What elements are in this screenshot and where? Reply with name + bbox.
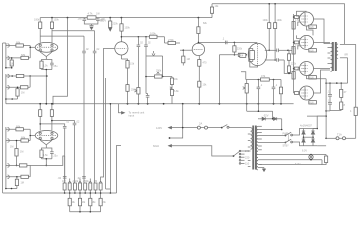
svg-text:270k: 270k <box>168 38 174 42</box>
svg-text:1M: 1M <box>62 179 66 183</box>
potentiometer P2 <box>73 179 82 194</box>
wire off-page reverb send <box>119 104 125 114</box>
capacitor C filter left <box>78 17 92 24</box>
capacitor C tone b <box>144 37 148 94</box>
wire grid join V1 <box>29 46 35 58</box>
svg-text:STBY: STBY <box>283 145 290 148</box>
svg-text:.1: .1 <box>260 83 263 87</box>
label V6 <box>309 48 317 52</box>
resistor R grid stopper V5 <box>238 53 247 56</box>
wire V6 plate <box>314 41 331 43</box>
diode D bias 2 <box>272 117 282 120</box>
svg-text:.02: .02 <box>140 42 144 45</box>
svg-text:220k: 220k <box>291 47 297 50</box>
resistor R 68k ch2b <box>9 136 30 143</box>
wire V5 cathode loop <box>250 62 258 68</box>
wire NFB row <box>325 82 347 84</box>
wire V5 aux pins <box>297 11 307 26</box>
wire bias row upper <box>247 104 273 119</box>
wire presence row <box>246 79 281 81</box>
wire V6 aux pins <box>297 35 300 49</box>
svg-text:input: input <box>129 114 135 118</box>
tube V5 6L6 <box>300 12 314 26</box>
svg-text:68k: 68k <box>16 124 21 128</box>
label V8 <box>309 100 317 104</box>
wire plate V1b to coupling <box>52 30 95 32</box>
resistor R grid leak V5 <box>233 42 236 56</box>
resistor R cathode PI <box>198 60 201 67</box>
svg-text:25u: 25u <box>54 155 59 158</box>
wire PT primary taps <box>248 134 251 167</box>
resistor R snub 2 <box>340 97 346 110</box>
wire plate V2a branch <box>39 123 64 126</box>
resistor R plate V2a <box>39 103 42 131</box>
wire rect feed top <box>293 129 318 136</box>
capacitor C cathode V1 <box>46 60 53 70</box>
svg-text:6L6: 6L6 <box>309 100 314 104</box>
capacitor C V4 coupling <box>222 37 227 45</box>
resistor R 68k lower2 <box>9 165 30 178</box>
potentiometer P3 <box>83 179 92 194</box>
svg-text:1.5k: 1.5k <box>43 154 48 157</box>
wire V4 plate out <box>198 42 258 45</box>
wire V5 output top <box>265 49 277 51</box>
svg-text:1M: 1M <box>21 182 24 185</box>
node dots ground bus <box>45 103 282 105</box>
svg-text:250k: 250k <box>156 70 162 73</box>
wire OT primary taps <box>328 48 331 64</box>
lamp pilot <box>309 154 313 161</box>
svg-text:100k: 100k <box>263 19 269 22</box>
wire heater c <box>259 164 322 166</box>
potentiometer presence <box>243 80 249 104</box>
svg-text:1M: 1M <box>94 179 98 183</box>
transformer PT primary <box>251 128 253 150</box>
svg-text:.1: .1 <box>222 37 225 41</box>
resistor R cathode V3 <box>121 59 129 104</box>
svg-text:4: 4 <box>350 110 352 113</box>
svg-text:120V: 120V <box>156 126 162 130</box>
wire V7 plate <box>314 68 331 70</box>
wire snub bottom link <box>330 110 341 112</box>
resistor R speaker line <box>354 107 357 115</box>
wire aux drop <box>117 146 122 194</box>
svg-text:16u: 16u <box>78 17 83 21</box>
svg-text:220: 220 <box>245 155 250 159</box>
svg-text:1M: 1M <box>10 146 13 149</box>
potentiometer mid vertical <box>170 77 174 104</box>
svg-text:100k: 100k <box>150 32 156 36</box>
svg-text:8R: 8R <box>345 53 348 57</box>
fuse F2 HT <box>326 133 356 140</box>
potentiometer treble <box>146 51 163 56</box>
resistor R grid stopper 1 <box>294 16 300 19</box>
svg-text:.02: .02 <box>85 48 89 51</box>
svg-text:PWR: PWR <box>283 133 289 136</box>
resistor R PI plate <box>197 18 200 43</box>
transformer PT core <box>252 126 256 170</box>
switch SW voltage selector <box>233 149 250 165</box>
svg-text:6L6: 6L6 <box>309 48 314 52</box>
wire rect feed bottom <box>293 142 318 146</box>
tube V5 internals <box>249 49 255 62</box>
resistor R bleeder <box>109 18 112 28</box>
svg-text:250k: 250k <box>83 179 89 183</box>
jack J1 input1 <box>6 44 9 48</box>
svg-text:68k: 68k <box>21 53 26 57</box>
wire rect B+ out <box>313 116 326 129</box>
svg-text:100k: 100k <box>125 27 131 30</box>
resistor R tail PI <box>198 81 201 87</box>
svg-text:2A: 2A <box>199 121 202 125</box>
resistor R 1M ch2 <box>15 140 18 167</box>
capacitor C out top <box>277 49 294 53</box>
jack J5 contact2 <box>6 175 9 179</box>
jacks ch2 vertical <box>5 127 7 189</box>
wire rect bottom out <box>317 138 327 146</box>
wire cathode V1 to ground bus <box>42 69 52 104</box>
wire PT HT taps <box>258 129 283 143</box>
text off-page reverb <box>129 111 145 118</box>
svg-text:1W: 1W <box>96 13 100 16</box>
svg-text:47: 47 <box>344 90 347 94</box>
wire plate V2b branch <box>51 120 74 123</box>
resistor R 1M lower <box>15 176 18 189</box>
wire V3 cathode <box>120 55 122 59</box>
potentiometer P1 <box>62 179 71 194</box>
svg-text:250k: 250k <box>73 179 79 183</box>
wire grid bus power tubes <box>293 14 295 93</box>
resistor R 68k input4 <box>9 76 30 89</box>
resistor R 1M input pair2 <box>16 87 19 100</box>
svg-text:100k: 100k <box>34 19 40 22</box>
svg-text:1.5k: 1.5k <box>295 69 300 72</box>
label V7 <box>309 75 317 79</box>
wire right B+ drop node <box>325 110 330 117</box>
wire presence feed <box>241 72 246 80</box>
svg-text:56k: 56k <box>81 201 86 204</box>
resistor R cathode V2 <box>40 148 46 159</box>
svg-text:10k: 10k <box>203 84 208 87</box>
resistor R 1M grid1 <box>10 57 13 68</box>
wire rect mid tap <box>303 136 314 138</box>
svg-text:25u: 25u <box>54 65 59 68</box>
wire tails bottom link <box>70 211 101 213</box>
potentiometer bass <box>155 72 163 78</box>
resistor R grid bus 1 <box>292 22 295 30</box>
resistor R cathode V1 <box>40 60 46 70</box>
resistor R presence series <box>261 74 270 81</box>
resistor R 68k ch2a <box>9 124 30 131</box>
wire screen feed row <box>307 115 326 117</box>
ground filter caps <box>90 24 94 30</box>
svg-text:56k: 56k <box>71 201 76 204</box>
wire bias out <box>258 114 282 130</box>
capacitor C filter right <box>92 17 106 24</box>
resistor R 68k input1 <box>9 41 30 48</box>
svg-text:1M: 1M <box>187 58 190 61</box>
resistor R presence end <box>279 80 282 104</box>
svg-text:-52V: -52V <box>263 114 269 118</box>
svg-text:110: 110 <box>245 162 250 166</box>
svg-text:10k: 10k <box>174 78 179 81</box>
capacitor C coupling V2b <box>73 123 77 183</box>
resistor R grid leak b <box>287 60 290 74</box>
wire lower grid path <box>284 60 293 73</box>
resistor R grid stopper 3 <box>294 67 300 70</box>
potentiometer volume <box>134 88 140 95</box>
tube V7 6L6 <box>300 62 314 76</box>
potentiometer P4 <box>94 179 103 194</box>
wire mains neutral <box>153 144 234 156</box>
wire NFB drop <box>325 83 327 138</box>
capacitor C coupling b <box>93 31 97 183</box>
svg-text:68k: 68k <box>21 136 26 140</box>
svg-text:220k: 220k <box>237 48 243 51</box>
wire V5 output bottom <box>265 59 277 61</box>
wire V8 plate <box>314 70 331 93</box>
capacitor C snub 1 <box>328 82 332 102</box>
ground bleeder <box>109 28 112 31</box>
svg-text:82k: 82k <box>203 22 208 25</box>
wire secondary to speaker fuse <box>355 44 357 138</box>
svg-text:6L6: 6L6 <box>309 25 314 29</box>
svg-text:T1A: T1A <box>337 133 342 137</box>
transformer OT primary <box>331 44 333 72</box>
resistor R grid stopper 2 <box>294 41 300 44</box>
resistor R treble out <box>165 38 181 45</box>
capacitor C cathode V2 <box>46 148 53 159</box>
wire bottom rail <box>3 192 50 194</box>
wire heater a <box>258 154 326 156</box>
svg-text:1.5k: 1.5k <box>130 63 135 66</box>
capacitor C slope <box>146 94 150 104</box>
capacitor C presence b <box>272 80 278 104</box>
wire run reverb return a <box>105 78 107 189</box>
resistor R tail P3 <box>89 192 92 212</box>
capacitor C drop line a <box>58 176 67 180</box>
resistor R series tone <box>145 32 164 39</box>
resistor R grid bus 3 <box>292 72 295 80</box>
wire plate V1a to coupling <box>40 35 84 37</box>
svg-text:.1: .1 <box>275 83 278 87</box>
wire run reverb return b <box>106 103 112 193</box>
resistor R grid leak a <box>287 50 290 60</box>
wire lower bus y164 <box>30 156 64 165</box>
tube V3 12AX7 <box>115 42 128 55</box>
wire PI cathode <box>198 56 200 104</box>
wire grid join V2 <box>29 129 35 140</box>
wire volume line down <box>137 94 139 104</box>
wire OT secondary tap top <box>340 44 356 56</box>
fuse F1 <box>197 121 207 129</box>
wire screens link <box>307 26 314 35</box>
resistor R top dropper <box>210 4 213 18</box>
capacitor C snub 2 <box>328 103 332 111</box>
tube V6 6L6 <box>300 35 314 49</box>
wire V5 plate <box>314 19 331 44</box>
jack J2 input <box>6 74 9 99</box>
tube V5 phase inverter <box>248 43 267 65</box>
wire mid bass row <box>145 76 172 78</box>
switch SW power <box>208 125 251 129</box>
svg-text:4x1N4007: 4x1N4007 <box>300 124 312 128</box>
resistor R 68k lower1 <box>9 164 30 167</box>
resistor R plate V1a <box>39 18 42 43</box>
tube V4 phase inverter <box>192 43 204 55</box>
wire B+ bus <box>40 17 212 19</box>
wire B+ top rail <box>212 4 345 44</box>
switch SW standby b <box>281 134 293 144</box>
svg-text:6.3V: 6.3V <box>295 162 301 166</box>
transformer OT core <box>332 42 337 71</box>
resistor R tail V3 <box>126 85 129 92</box>
resistor R grid stopper 4 <box>294 92 300 95</box>
svg-text:60Hz: 60Hz <box>153 144 160 148</box>
svg-text:1.5k: 1.5k <box>43 65 48 68</box>
wire plate V3 takeoff <box>121 36 146 38</box>
resistor R plate V1b <box>50 18 53 43</box>
resistor R snub 1 <box>340 82 347 97</box>
capacitor C coupling V2a <box>63 126 67 183</box>
jack J5 lower <box>6 164 9 168</box>
label V5 <box>309 25 317 29</box>
capacitor C coupling a <box>82 36 86 183</box>
wire PT minor taps <box>258 126 262 164</box>
resistor R tail P2 <box>78 192 81 212</box>
svg-text:220k: 220k <box>113 23 119 26</box>
node jacks ch1 vertical <box>5 43 7 68</box>
label box V4 <box>240 53 246 57</box>
wire PI input left <box>180 49 192 51</box>
svg-text:1.5k: 1.5k <box>295 19 300 22</box>
jack J2 contact2 <box>6 86 9 90</box>
capacitor C drop line c <box>77 176 86 180</box>
svg-text:.02: .02 <box>147 42 151 45</box>
svg-text:56k: 56k <box>102 201 107 204</box>
svg-text:1M: 1M <box>11 63 14 66</box>
tube V8 6L6 <box>300 86 314 100</box>
transformer OT secondary <box>336 44 338 58</box>
wire earth drop <box>169 104 184 139</box>
svg-text:100k: 100k <box>277 19 283 22</box>
svg-text:47k: 47k <box>261 74 266 78</box>
resistor R tail P1 <box>68 192 71 212</box>
wire treble pot right <box>162 56 164 77</box>
svg-text:.02: .02 <box>76 121 80 124</box>
wire T3 cathode row <box>307 76 327 84</box>
resistor R plate V5b <box>274 3 277 61</box>
resistor R plate V2b <box>50 103 53 131</box>
wire V2 cathode pins <box>40 140 52 148</box>
wire drop a to pot <box>64 156 66 183</box>
wire grid V3 feed <box>101 48 115 178</box>
resistor R plate V5a <box>268 3 271 51</box>
wire selector to PT <box>245 150 248 152</box>
svg-text:1M: 1M <box>20 151 23 154</box>
svg-text:100k: 100k <box>54 19 60 22</box>
diode D rect 2 <box>302 137 305 146</box>
tube V2 12AX7 <box>35 131 58 141</box>
wire OT secondary tap bottom <box>340 58 348 83</box>
resistor R 68k input2 <box>9 53 30 60</box>
diode D rect 4 <box>311 137 314 146</box>
wire grid row V5 <box>219 55 238 104</box>
wire left rail <box>2 43 4 193</box>
transformer PT secondary <box>256 127 258 170</box>
capacitor C tone a <box>137 37 141 88</box>
capacitor C out bottom <box>277 58 284 62</box>
wire jack ground link <box>5 67 12 69</box>
svg-text:6.3V: 6.3V <box>302 150 307 153</box>
resistor R grid bus 2 <box>292 47 295 55</box>
svg-text:68k: 68k <box>16 41 21 45</box>
wire V1 cathode pins <box>40 52 52 60</box>
resistor R heater end <box>322 155 328 165</box>
tube V1 12AX7 <box>35 42 58 52</box>
svg-text:1.5k: 1.5k <box>295 44 300 47</box>
svg-text:470: 470 <box>203 62 208 65</box>
wire left rail to jacks <box>3 43 6 46</box>
svg-text:220k: 220k <box>291 63 297 66</box>
wire screen drop <box>53 18 68 104</box>
diode D rect 3 <box>311 129 314 138</box>
resistor R 68k input3 <box>9 74 48 77</box>
svg-text:10k: 10k <box>215 5 220 8</box>
wire ground bus preamp <box>6 103 294 105</box>
diode D bias 1 <box>259 117 273 120</box>
text misc labels <box>10 5 352 204</box>
wire heater b <box>258 159 322 161</box>
svg-text:250k: 250k <box>131 89 137 92</box>
wire PT bottom gnd <box>258 168 266 172</box>
svg-text:8: 8 <box>344 103 346 107</box>
wire treble branch <box>164 37 166 43</box>
resistor R PI grid <box>182 50 185 65</box>
svg-text:1M: 1M <box>21 92 24 95</box>
wire pots bus <box>50 192 117 194</box>
resistor R plate V3 <box>120 18 123 42</box>
svg-text:V4: V4 <box>240 54 244 58</box>
jack J3 contact2 <box>6 139 9 143</box>
diode D rect 1 <box>302 129 305 138</box>
node dots on B+ bus <box>51 17 199 19</box>
capacitor C presence a <box>257 80 263 104</box>
wire lower jack ground <box>5 188 17 190</box>
switch SW standby <box>281 132 293 136</box>
svg-text:6.8k: 6.8k <box>174 90 179 93</box>
svg-text:.02: .02 <box>96 48 100 51</box>
jack J1 contact2 <box>6 56 9 60</box>
jack J3 input <box>6 128 9 132</box>
wire cathode V2 down <box>42 158 52 166</box>
wire pair2 ground link <box>5 98 17 104</box>
resistor R series B+ <box>87 12 96 20</box>
wire mains hot <box>156 126 198 130</box>
svg-text:56k: 56k <box>92 201 97 204</box>
svg-text:4.7k: 4.7k <box>88 12 94 16</box>
resistor R tail P4 <box>99 192 102 212</box>
